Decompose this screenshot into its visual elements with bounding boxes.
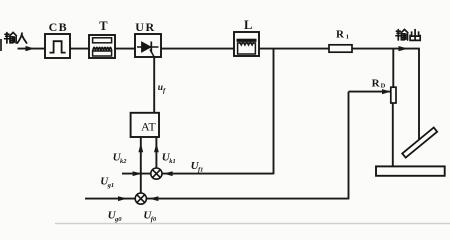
summing junction lower: [135, 193, 146, 204]
node to R_D divider: vertical: [392, 49, 394, 88]
svg-text:g1: g1: [107, 182, 115, 189]
input wire with arrow: [18, 46, 46, 51]
tap wire u_f from UR down to AT: [153, 57, 155, 113]
resistor R1: [329, 45, 352, 52]
label R_D: [372, 78, 386, 90]
label U_f0: [143, 210, 157, 223]
label 输入 (input): [5, 32, 27, 43]
wiper tap arrow into R_D: [349, 89, 391, 94]
right vertical from output corner down to wiper: [418, 49, 420, 139]
scan streak bottom: [55, 223, 450, 224]
brush arm (rotated bar): [402, 128, 437, 158]
svg-text:g0: g0: [114, 216, 122, 223]
block T (transformer): [89, 35, 115, 58]
vertical U_k1: upper summing junction up to AT: [154, 137, 159, 168]
svg-text:f1: f1: [198, 167, 203, 174]
label U_g0: [108, 210, 123, 223]
label u_f: [158, 83, 166, 95]
node after L: vertical feedback drop U_f1: [273, 49, 275, 175]
vertical below R_D to brush bar: [392, 103, 394, 167]
svg-text:R: R: [372, 78, 381, 90]
block CB: [45, 34, 70, 58]
block L (reactor): [234, 32, 259, 56]
svg-text:1: 1: [346, 33, 349, 40]
wire L-R1: [259, 48, 329, 50]
svg-text:k2: k2: [120, 158, 127, 165]
label 输出 (output): [396, 29, 420, 40]
vertical U_k2: lower summing junction up to AT: [138, 137, 143, 193]
svg-text:T: T: [99, 19, 108, 33]
svg-text:AT: AT: [141, 120, 156, 134]
summing junction upper: [151, 168, 162, 179]
vertical from tap down to lower feedback line: [348, 92, 350, 200]
svg-text:CB: CB: [49, 20, 68, 34]
svg-text:k1: k1: [169, 158, 176, 165]
block AT: [131, 113, 159, 137]
upper feedback line (U_g1 / U_f1 into upper junction): [122, 171, 274, 176]
svg-text:D: D: [381, 83, 386, 90]
diode inside UR: [137, 42, 159, 58]
svg-text:UR: UR: [135, 20, 156, 34]
wire R1 to output corner, with output arrow: [352, 46, 420, 51]
label U_k1: [162, 152, 176, 165]
commutator track bar: [376, 166, 445, 175]
wire T-UR: [115, 48, 135, 50]
svg-text:L: L: [244, 18, 252, 32]
wire UR-L: [161, 48, 234, 50]
wire CB-T: [70, 48, 89, 50]
pulse symbol inside CB: [50, 41, 66, 52]
block UR (rectifier): [135, 34, 161, 57]
label U_k2: [113, 152, 128, 165]
scan smudge left edge: [0, 39, 2, 51]
label U_f1: [191, 160, 204, 173]
label U_g1: [100, 176, 114, 189]
svg-text:R: R: [336, 29, 345, 41]
resistor R_D (vertical): [391, 87, 396, 103]
lower feedback line (U_g0 / U_f0 into lower junction): [85, 196, 349, 201]
svg-text:f0: f0: [151, 216, 157, 223]
